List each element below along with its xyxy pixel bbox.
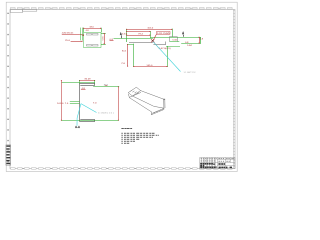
- note line 6: [121, 142, 122, 145]
- section profile (dark): [80, 83, 95, 121]
- note line 3: [121, 136, 122, 139]
- dim 79.4: [127, 31, 151, 33]
- chain dims 8.4 / 7.0: [127, 44, 134, 46]
- bend node: [151, 39, 154, 42]
- svg-text:2-R1.25(M): 2-R1.25(M): [157, 33, 170, 35]
- dim 105.0: [127, 29, 173, 31]
- svg-text:4-M2.5X0.45: 4-M2.5X0.45: [62, 32, 74, 34]
- section label A left: [120, 33, 122, 35]
- bottom ruler dash strip: [11, 168, 233, 170]
- title block dark text marks: [200, 163, 232, 168]
- slots: [87, 34, 99, 47]
- iso channel edges: [141, 91, 164, 100]
- bottom dim: [134, 44, 168, 67]
- flange edge lines: [81, 28, 83, 41]
- left vertical dim: [61, 81, 63, 121]
- dim 5.56 right: [101, 34, 106, 45]
- note line 1: [121, 132, 122, 135]
- note line 2: [121, 134, 122, 137]
- right edge ladder ruler: [233, 10, 235, 169]
- svg-text:145.0: 145.0: [146, 65, 153, 67]
- bottom-left rotated table block: [6, 145, 11, 165]
- part lines: [114, 37, 201, 43]
- right vertical dim: [118, 87, 120, 121]
- section label A right: [182, 32, 184, 34]
- dim 18.0: [84, 28, 101, 30]
- right tab: [170, 37, 178, 42]
- svg-text:1:1 GB/T 152: 1:1 GB/T 152: [184, 72, 197, 74]
- title block light header marks: [201, 158, 235, 162]
- iso tab slots: [154, 111, 156, 114]
- svg-text:103.0: 103.0: [57, 103, 64, 105]
- svg-text:85.09: 85.09: [85, 78, 92, 80]
- long extension line lower: [62, 120, 119, 122]
- top dim: [80, 80, 96, 82]
- top ruler dash strip: [11, 8, 233, 10]
- dim arrowheads: [61, 28, 200, 121]
- inner frame: [10, 10, 235, 169]
- svg-text:105.0: 105.0: [147, 27, 154, 29]
- paper edge: [6, 2, 237, 171]
- long extension line upper: [62, 82, 95, 84]
- top-left accessory box: [11, 9, 37, 12]
- leader 2-R1.25 boxed: [157, 32, 171, 35]
- iso left plate slots: [130, 90, 132, 91]
- iso wall top mark: [163, 99, 165, 100]
- green ext for 5.84: [166, 46, 180, 48]
- cyan leaders: [81, 104, 97, 113]
- iso left end plate: [128, 87, 140, 96]
- right end dims: [199, 37, 201, 43]
- svg-text:b 1X08 ( 1:2 ): b 1X08 ( 1:2 ): [98, 113, 114, 115]
- title block v-lines: [201, 158, 203, 169]
- section label A-A: [75, 126, 77, 128]
- top view outline: [84, 33, 102, 48]
- title block outer: [200, 158, 235, 169]
- cyan leader: [153, 42, 180, 72]
- iso right tab strip: [152, 108, 165, 113]
- dim 13.9 line: [127, 35, 151, 37]
- note line 4: [121, 138, 122, 141]
- iso right end wall: [163, 99, 165, 108]
- notes header: [121, 128, 123, 129]
- web bottom step right of bend: [153, 44, 166, 46]
- mid extension lines: [70, 101, 80, 103]
- note line 5: [121, 140, 122, 143]
- left zone strip letters: [8, 13, 9, 163]
- title block h-lines: [200, 162, 235, 164]
